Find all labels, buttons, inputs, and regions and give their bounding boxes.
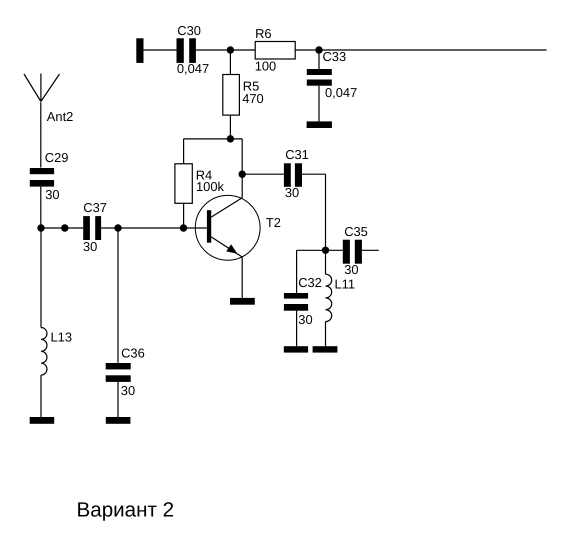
wire junction to C33 <box>318 50 320 69</box>
node base junction <box>180 224 187 231</box>
svg-text:C32: C32 <box>298 275 322 290</box>
node C33 junction <box>315 46 322 53</box>
wire C32 to ground <box>296 311 298 347</box>
terminal bar input <box>136 38 143 63</box>
wire node to R4 and collector corner <box>184 139 243 198</box>
svg-text:C31: C31 <box>285 147 309 162</box>
wire L11 to ground <box>325 322 327 347</box>
ground under C36 <box>106 417 131 424</box>
svg-text:Ant2: Ant2 <box>47 109 74 124</box>
wire C33 to ground <box>318 86 320 122</box>
wire terminal to C30 <box>144 49 177 51</box>
svg-text:C29: C29 <box>45 150 69 165</box>
wire C36 to ground <box>117 382 119 417</box>
resistor R6 <box>255 26 296 73</box>
wire junction to C35 <box>326 249 343 251</box>
svg-text:0,047: 0,047 <box>325 85 357 100</box>
svg-text:30: 30 <box>285 185 299 200</box>
ground under C32 <box>284 346 308 352</box>
node antenna/L13 junction <box>37 224 44 231</box>
svg-text:30: 30 <box>344 262 358 277</box>
svg-text:R6: R6 <box>255 26 271 41</box>
caption Вариант 2 <box>77 499 175 522</box>
antenna Ant2 <box>24 74 73 124</box>
svg-text:C33: C33 <box>323 49 347 64</box>
wire C35 output stub <box>362 249 379 251</box>
node stub junction <box>61 224 68 231</box>
capacitor C35 <box>343 224 368 277</box>
inductor L13 <box>41 328 72 376</box>
ground under emitter <box>230 298 255 305</box>
wire emitter to ground <box>241 257 243 298</box>
wire C31 to lower junction <box>302 174 326 250</box>
transistor T2 <box>195 195 281 260</box>
svg-text:C36: C36 <box>121 345 145 360</box>
wire junction to L11 <box>325 250 327 274</box>
capacitor C37 <box>83 200 107 254</box>
wire L13 to ground <box>40 375 42 417</box>
svg-text:0,047: 0,047 <box>177 61 209 76</box>
svg-text:30: 30 <box>83 239 97 254</box>
capacitor C30 <box>177 23 210 76</box>
wire C36 branch <box>117 228 119 363</box>
wire L13 branch <box>40 228 42 328</box>
wire R4 to base node <box>183 203 185 228</box>
wire R5 to node <box>229 115 231 139</box>
resistor R4 <box>175 164 225 204</box>
wire C30 to R6 <box>196 49 255 51</box>
svg-text:100: 100 <box>255 58 277 73</box>
wire base rail left <box>41 227 83 229</box>
ground under L11 <box>313 346 338 352</box>
capacitor C33 <box>307 49 357 100</box>
node C36 junction <box>114 224 121 231</box>
inductor L11 <box>326 274 356 321</box>
svg-text:Вариант 2: Вариант 2 <box>77 499 175 522</box>
svg-text:30: 30 <box>121 383 135 398</box>
wire collector node to C31 <box>242 173 284 175</box>
wire C37 to base <box>101 227 207 229</box>
svg-text:L13: L13 <box>51 329 73 344</box>
capacitor C31 <box>284 147 309 200</box>
node collector junction <box>239 171 246 178</box>
svg-text:T2: T2 <box>266 215 281 230</box>
svg-text:30: 30 <box>298 312 312 327</box>
svg-text:C30: C30 <box>177 23 201 38</box>
capacitor C29 <box>30 150 69 202</box>
capacitor C32 <box>284 275 322 327</box>
wire C29 to base rail <box>40 187 42 228</box>
resistor R5 <box>223 75 264 116</box>
svg-text:C35: C35 <box>344 224 368 239</box>
svg-text:30: 30 <box>45 187 59 202</box>
capacitor C36 <box>106 345 145 398</box>
svg-text:100k: 100k <box>196 179 225 194</box>
node R5/R4/collector junction <box>227 135 234 142</box>
node R5/C30 junction <box>227 46 234 53</box>
wire junction to R5 <box>229 50 231 75</box>
ground under L13 <box>30 417 55 424</box>
svg-text:C37: C37 <box>83 200 107 215</box>
wire R6 to right edge <box>295 49 546 51</box>
svg-text:470: 470 <box>242 91 264 106</box>
wire junction to C32 <box>297 250 326 293</box>
wire antenna to C29 <box>40 102 42 167</box>
ground under C33 <box>307 121 332 128</box>
svg-text:L11: L11 <box>335 277 356 292</box>
node C32/L11/C35 junction <box>322 247 329 254</box>
